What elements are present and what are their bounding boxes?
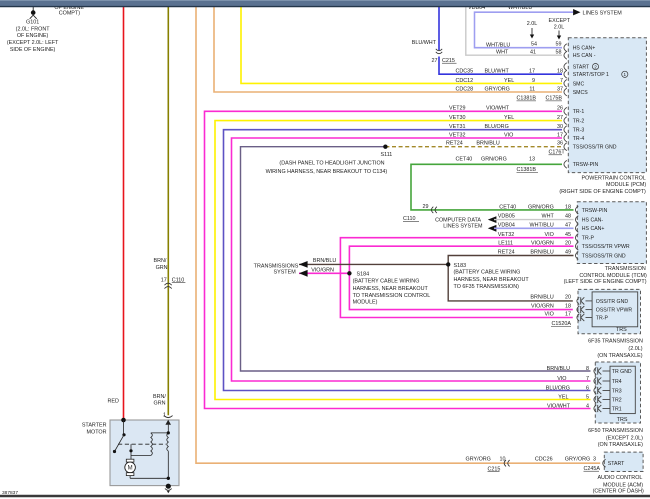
junction dot red wire at box top (121, 418, 126, 423)
svg-text:2.0L: 2.0L (527, 21, 538, 27)
svg-text:VET32: VET32 (498, 232, 514, 238)
wire VET29 VIO/WHT: PCM TR-1 to 6F50 TR1 (205, 111, 591, 408)
TRS inner box of 6F50 (610, 366, 635, 413)
svg-text:17: 17 (161, 277, 167, 283)
svg-text:M: M (128, 466, 133, 472)
svg-text:TR1: TR1 (612, 406, 622, 412)
svg-text:17: 17 (565, 311, 571, 317)
svg-text:(CENTER OF DASH): (CENTER OF DASH) (593, 489, 644, 495)
svg-text:OF ENGINE): OF ENGINE) (17, 33, 49, 39)
TRS inner box of 6F35 (592, 292, 638, 327)
svg-text:(LEFT SIDE OF ENGINE COMPT): (LEFT SIDE OF ENGINE COMPT) (564, 279, 647, 285)
svg-text:GRN/ORG: GRN/ORG (481, 157, 507, 163)
svg-text:YEL: YEL (558, 394, 568, 400)
svg-text:CDC26: CDC26 (535, 457, 553, 463)
svg-text:6F50 TRANSMISSION: 6F50 TRANSMISSION (588, 428, 643, 434)
svg-text:13: 13 (529, 157, 535, 163)
svg-text:WHT: WHT (496, 50, 509, 56)
svg-text:10: 10 (500, 457, 506, 463)
module ACM box (604, 452, 643, 471)
svg-text:1: 1 (624, 72, 627, 77)
svg-text:BRN/BLU: BRN/BLU (530, 250, 553, 256)
svg-text:7: 7 (560, 78, 563, 84)
svg-text:VDB05: VDB05 (498, 214, 515, 220)
svg-text:STARTER: STARTER (82, 423, 107, 429)
svg-text:CET40: CET40 (499, 205, 516, 211)
wire VET32 VIO: PCM TR-4 to 6F50 TR4 (232, 138, 591, 381)
svg-text:TR-4: TR-4 (573, 136, 585, 142)
svg-text:(BATTERY CABLE WIRING: (BATTERY CABLE WIRING (353, 279, 420, 285)
svg-text:HS CAN+: HS CAN+ (582, 226, 605, 232)
svg-text:TR3: TR3 (612, 388, 622, 394)
module TCM box (577, 202, 646, 264)
wire CDC28 GRY/ORG to PCM SMCS pin 37 (214, 7, 562, 93)
svg-text:20: 20 (565, 240, 571, 246)
svg-text:LINES SYSTEM: LINES SYSTEM (583, 10, 623, 16)
inline connector C215 pin 27 on BLU/WHT (436, 49, 442, 51)
circled note 2 next to START (592, 64, 598, 70)
svg-text:VIO: VIO (545, 232, 554, 238)
svg-text:(ON TRANSAXLE): (ON TRANSAXLE) (598, 442, 643, 448)
wire VDB05 WHT to PCM HS CAN- pin 58 (466, 7, 562, 56)
starter solenoid switch (123, 420, 125, 435)
svg-text:YEL: YEL (504, 78, 514, 84)
svg-text:1: 1 (163, 413, 166, 419)
svg-text:VET31: VET31 (449, 124, 465, 130)
svg-text:TR-3: TR-3 (573, 128, 585, 134)
solenoid dashed actuation line (118, 443, 166, 445)
svg-text:TR-P: TR-P (596, 315, 609, 321)
svg-text:TO 6F35 TRANSMISSION): TO 6F35 TRANSMISSION) (454, 284, 520, 290)
svg-text:S184: S184 (357, 272, 370, 278)
svg-text:37: 37 (557, 86, 563, 92)
svg-text:G101: G101 (26, 20, 39, 26)
svg-text:(2.0L: FRONT: (2.0L: FRONT (16, 27, 51, 33)
svg-text:BRN/BLU: BRN/BLU (313, 258, 336, 264)
wire CET40 GRN/ORG: PCM TRSW-PIN to TCM TRSW-PIN (411, 164, 574, 210)
svg-text:MOTOR: MOTOR (87, 430, 107, 436)
svg-text:LE111: LE111 (498, 240, 513, 246)
svg-text:GRN/ORG: GRN/ORG (528, 205, 554, 211)
branch to transmissions system arrow BRN/BLU (299, 263, 448, 265)
svg-text:9: 9 (532, 78, 535, 84)
svg-text:18: 18 (565, 304, 571, 310)
svg-text:CONTROL MODULE (TCM): CONTROL MODULE (TCM) (579, 273, 647, 279)
svg-text:EXCEPT: EXCEPT (549, 18, 571, 24)
svg-text:COMPUTER DATA: COMPUTER DATA (435, 217, 481, 223)
solenoid coils (151, 433, 153, 456)
svg-text:6: 6 (586, 385, 589, 391)
svg-text:BRN/: BRN/ (154, 258, 167, 264)
svg-text:VET29: VET29 (449, 106, 465, 112)
wire CDC12 YEL to PCM SMC pin 7 (241, 7, 562, 84)
svg-text:BRN/BLU: BRN/BLU (476, 141, 499, 147)
computer data lines arrows at TCM (488, 216, 497, 223)
svg-text:CDC35: CDC35 (456, 68, 474, 74)
svg-text:30: 30 (557, 124, 563, 130)
svg-text:CDC12: CDC12 (456, 78, 474, 84)
svg-text:3: 3 (593, 457, 596, 463)
inline connector C215 pin 10 on GRY/ORG wire (504, 460, 506, 466)
svg-text:GRY/ORG: GRY/ORG (485, 86, 510, 92)
svg-text:POWERTRAIN CONTROL: POWERTRAIN CONTROL (582, 176, 646, 182)
svg-text:OSS/TR GND: OSS/TR GND (596, 299, 629, 305)
svg-text:BLU/WHT: BLU/WHT (485, 68, 510, 74)
svg-text:(2.0L): (2.0L) (628, 346, 642, 352)
svg-text:HARNESS, NEAR BREAKOUT: HARNESS, NEAR BREAKOUT (454, 277, 530, 283)
svg-text:GRN: GRN (154, 400, 166, 406)
wire VET30 YEL: PCM TR-2 to 6F50 TR2 (215, 121, 591, 400)
svg-text:WHT: WHT (542, 214, 555, 220)
svg-text:START: START (608, 461, 625, 467)
wire VDB04 WHT/BLU to TCM HS CAN+ pin 47 (494, 227, 574, 229)
svg-text:58: 58 (556, 50, 562, 56)
wire BRN/GRN inside starter to coil (167, 425, 169, 433)
svg-text:17: 17 (557, 132, 563, 138)
svg-text:TRSW-PIN: TRSW-PIN (582, 208, 608, 214)
svg-text:27: 27 (432, 58, 438, 64)
svg-text:WHT/BLU: WHT/BLU (486, 42, 510, 48)
svg-text:VIO: VIO (545, 311, 554, 317)
svg-text:WHT/BLU: WHT/BLU (530, 222, 554, 228)
svg-text:TRANSMISSION: TRANSMISSION (605, 266, 646, 272)
svg-text:CDC28: CDC28 (456, 86, 474, 92)
svg-text:2: 2 (594, 64, 597, 69)
circled note 1 next to START/STOP 1 (622, 71, 628, 77)
svg-text:(EXCEPT 2.0L: LEFT: (EXCEPT 2.0L: LEFT (7, 40, 59, 46)
svg-text:BLU/WHT: BLU/WHT (412, 40, 437, 46)
svg-text:SMCS: SMCS (573, 90, 589, 96)
svg-text:18: 18 (557, 68, 563, 74)
svg-text:SMC: SMC (573, 81, 585, 87)
svg-text:4: 4 (586, 403, 589, 409)
connector pin 1 of starter motor (164, 416, 173, 418)
svg-text:17: 17 (529, 68, 535, 74)
svg-text:MODULE (PCM): MODULE (PCM) (606, 182, 646, 188)
module 6F35 transmission box (578, 289, 641, 333)
svg-text:TR-P: TR-P (582, 236, 595, 242)
svg-text:HS CAN -: HS CAN - (573, 53, 596, 59)
svg-text:HARNESS, NEAR BREAKOUT: HARNESS, NEAR BREAKOUT (353, 286, 429, 292)
svg-text:WIRING HARNESS, NEAR BREAKOUT: WIRING HARNESS, NEAR BREAKOUT TO C134) (266, 169, 388, 175)
wire RET24 BRN/BLU: S111 to 6F50 TR GND (241, 147, 591, 371)
svg-text:GRY/ORG: GRY/ORG (466, 457, 491, 463)
svg-text:S183: S183 (454, 263, 467, 269)
svg-text:MODULE): MODULE) (353, 300, 378, 306)
starter pin 1 male connector arrow (165, 420, 171, 425)
svg-text:(RIGHT SIDE OF ENGINE COMPT): (RIGHT SIDE OF ENGINE COMPT) (559, 189, 646, 195)
svg-text:AUDIO CONTROL: AUDIO CONTROL (597, 475, 642, 481)
svg-text:LINES SYSTEM: LINES SYSTEM (443, 223, 483, 229)
svg-text:6F35 TRANSMISSION: 6F35 TRANSMISSION (588, 339, 643, 345)
svg-text:41: 41 (530, 50, 536, 56)
svg-text:COMPT): COMPT) (59, 11, 80, 17)
starter motor box (110, 420, 179, 486)
svg-text:26: 26 (557, 106, 563, 112)
svg-text:5: 5 (586, 394, 589, 400)
wire VET31 BLU/ORG: PCM TR-3 to 6F50 TR3 (224, 130, 591, 391)
svg-text:TRS: TRS (616, 327, 627, 333)
wire RET24 BRN/BLU: TCM TSS/OSS/TR GND via S183 to 6F35 OSS/TR GND (448, 256, 573, 301)
svg-text:HS CAN+: HS CAN+ (573, 46, 596, 52)
svg-text:VIO/GRN: VIO/GRN (311, 268, 334, 274)
svg-text:(DASH PANEL TO HEADLIGHT JUNCT: (DASH PANEL TO HEADLIGHT JUNCTION (279, 160, 384, 166)
svg-text:VIO/GRN: VIO/GRN (531, 304, 554, 310)
svg-text:48: 48 (565, 214, 571, 220)
svg-text:BRN/: BRN/ (153, 394, 166, 400)
svg-text:VIO: VIO (557, 376, 566, 382)
svg-text:HS CAN-: HS CAN- (582, 218, 604, 224)
svg-text:59: 59 (556, 41, 562, 47)
wire VDB05 WHT to TCM HS CAN- pin 48 (494, 219, 574, 221)
svg-text:OSS/TR VPWR: OSS/TR VPWR (596, 308, 633, 314)
svg-text:YEL: YEL (504, 115, 514, 121)
arrow to LINES SYSTEM (573, 9, 580, 15)
svg-text:27: 27 (557, 115, 563, 121)
svg-text:VIO/WHT: VIO/WHT (547, 403, 571, 409)
svg-text:29: 29 (423, 204, 429, 210)
wire RED vertical from header to starter motor (123, 7, 125, 421)
svg-text:START/STOP 1: START/STOP 1 (573, 72, 609, 78)
svg-text:GRY/ORG: GRY/ORG (565, 457, 590, 463)
svg-text:VIO: VIO (504, 132, 513, 138)
wire BRN/GRN vertical from header to starter pin 1 (167, 7, 169, 416)
svg-text:BRN/BLU: BRN/BLU (530, 294, 553, 300)
svg-text:54: 54 (531, 41, 537, 47)
svg-text:SIDE OF ENGINE): SIDE OF ENGINE) (10, 47, 56, 53)
svg-text:(BATTERY CABLE WIRING: (BATTERY CABLE WIRING (454, 270, 521, 276)
svg-text:47: 47 (565, 222, 571, 228)
svg-text:(ON TRANSAXLE): (ON TRANSAXLE) (597, 353, 642, 359)
branch to transmissions system arrow VIO/GRN (299, 272, 349, 274)
svg-text:TR-2: TR-2 (573, 119, 585, 125)
svg-text:2.0L: 2.0L (554, 24, 565, 30)
svg-text:VIO/GRN: VIO/GRN (531, 240, 554, 246)
wire VET32 VIO: TCM TR-P to 6F35 TR-P (340, 238, 573, 318)
wire LE111 VIO/GRN: TCM TSS/OSS/TR VPWR via S184 to 6F35 OSS/TR VPWR (349, 246, 573, 309)
svg-text:SYSTEM: SYSTEM (274, 269, 297, 275)
splice S184 (347, 271, 351, 275)
svg-text:20: 20 (565, 294, 571, 300)
svg-text:RET24: RET24 (498, 250, 515, 256)
svg-text:TR GND: TR GND (612, 369, 632, 375)
svg-text:RED: RED (108, 399, 119, 405)
module 6F50 transmission box (595, 362, 640, 423)
svg-text:S111: S111 (381, 152, 393, 158)
svg-text:TSS/OSS/TR GND: TSS/OSS/TR GND (573, 145, 617, 151)
svg-text:7: 7 (586, 376, 589, 382)
ground G101 (32, 7, 34, 11)
svg-text:BRN/BLU: BRN/BLU (547, 366, 570, 372)
svg-text:18: 18 (565, 205, 571, 211)
svg-text:TR2: TR2 (612, 397, 622, 403)
inline connector C110 pin 17 on BRN/GRN wire (165, 283, 172, 285)
header bar (0, 0, 650, 7)
svg-text:TSS/OSS/TR GND: TSS/OSS/TR GND (582, 253, 626, 259)
dashed RET24 BRN/BLU from S111 to PCM TSS/OSS/TR GND pin 36 (385, 146, 562, 148)
svg-text:TRSW-PIN: TRSW-PIN (573, 162, 599, 168)
svg-text:36: 36 (557, 141, 563, 147)
svg-text:49: 49 (565, 250, 571, 256)
svg-text:BLU/ORG: BLU/ORG (546, 385, 570, 391)
svg-text:BLU/ORG: BLU/ORG (485, 124, 509, 130)
svg-text:TO TRANSMISSION CONTROL: TO TRANSMISSION CONTROL (353, 293, 431, 299)
wire CDC35 BLU/WHT to PCM START/STOP pin 18 (438, 7, 440, 51)
svg-text:TSS/OSS/TR VPWR: TSS/OSS/TR VPWR (582, 244, 630, 250)
svg-text:TR4: TR4 (612, 379, 622, 385)
svg-text:START: START (573, 65, 590, 71)
svg-text:VIO/WHT: VIO/WHT (486, 106, 510, 112)
svg-text:RET24: RET24 (446, 141, 463, 147)
svg-text:8: 8 (586, 366, 589, 372)
svg-text:VET32: VET32 (449, 132, 465, 138)
starter motor M (126, 459, 134, 462)
wire VDB04 WHT/BLU loop to PCM HS CAN+ pin 59 and lines system arrow (475, 12, 574, 48)
module PCM box (568, 38, 646, 173)
svg-text:VET30: VET30 (449, 115, 465, 121)
svg-text:CET40: CET40 (456, 157, 473, 163)
svg-text:387837: 387837 (2, 490, 18, 496)
svg-text:11: 11 (529, 86, 535, 92)
svg-text:VDB04: VDB04 (498, 222, 515, 228)
svg-text:GRN: GRN (156, 265, 168, 271)
inline connector C110 pin 29 on GRN/ORG (431, 207, 433, 213)
svg-text:TRS: TRS (617, 417, 628, 423)
svg-text:45: 45 (565, 232, 571, 238)
wire GRY/ORG from header down-around to ACM (196, 7, 600, 464)
starter ground connection (166, 484, 171, 489)
splice S111 (383, 145, 387, 149)
svg-text:(EXCEPT 2.0L): (EXCEPT 2.0L) (606, 435, 643, 441)
svg-text:TR-1: TR-1 (573, 109, 585, 115)
splice S183 (446, 262, 450, 266)
footer line (0, 495, 650, 497)
